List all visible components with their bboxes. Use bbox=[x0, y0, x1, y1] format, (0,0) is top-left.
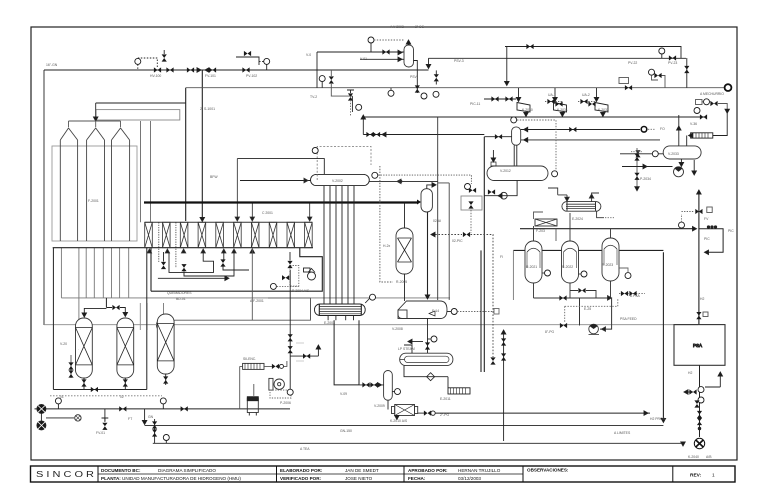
instrument circle on top bbox=[511, 117, 517, 123]
HTS reactor D1 bbox=[525, 241, 542, 283]
control valve w positioner bbox=[695, 209, 702, 214]
control valve w actuator bbox=[348, 93, 353, 100]
relief cluster mid bbox=[319, 76, 325, 82]
wire D2 top to exch bbox=[569, 213, 571, 241]
wire riser to header bbox=[555, 229, 557, 241]
svg-text:FT: FT bbox=[128, 417, 132, 421]
wire PSA bottom line bbox=[699, 365, 701, 437]
svg-text:R-2021: R-2021 bbox=[526, 265, 537, 269]
svg-text:A PSA: A PSA bbox=[630, 294, 641, 298]
pump small bbox=[308, 272, 316, 280]
valve stack bbox=[154, 419, 156, 443]
wire to left w arrow bbox=[684, 391, 693, 393]
wire band top line bbox=[145, 221, 313, 223]
svg-text:H2 PROD: H2 PROD bbox=[650, 417, 666, 421]
svg-text:K-2040: K-2040 bbox=[688, 455, 699, 459]
KO drum vessel bbox=[663, 146, 701, 159]
svg-text:E-2024: E-2024 bbox=[572, 217, 583, 221]
svg-text:01: 01 bbox=[60, 395, 64, 399]
wire NG feed main bbox=[35, 408, 291, 410]
valve 3 bbox=[209, 67, 216, 72]
svg-text:V-2002: V-2002 bbox=[332, 179, 343, 183]
ejector hatched box bbox=[448, 388, 470, 394]
wire loop to right bbox=[513, 249, 663, 251]
svg-text:TV-2: TV-2 bbox=[310, 95, 317, 99]
separator drum bbox=[398, 301, 447, 319]
dotted aux line bbox=[50, 395, 162, 397]
relief stack left bbox=[70, 355, 72, 378]
instrument circle bbox=[451, 309, 457, 315]
antisurge valves bbox=[545, 101, 562, 103]
svg-text:8"-PG: 8"-PG bbox=[545, 330, 554, 334]
wire up-arrows below band bbox=[147, 249, 151, 253]
svg-text:REV:: REV: bbox=[690, 473, 702, 479]
trim cooler exchanger bbox=[562, 202, 601, 212]
svg-text:PIC: PIC bbox=[728, 229, 734, 233]
valve on dashed bfw line bbox=[463, 232, 470, 237]
wire aux line left bbox=[46, 417, 74, 419]
wire D3 top bbox=[610, 229, 612, 238]
wire pot drain elbow bbox=[414, 61, 418, 71]
svg-text:FV-101: FV-101 bbox=[205, 74, 216, 78]
svg-text:GN: GN bbox=[148, 415, 154, 419]
main horizontal drum bbox=[487, 166, 548, 181]
exchanger shell bbox=[315, 304, 366, 316]
compressor stage 2 bbox=[554, 103, 567, 113]
valve station box bbox=[236, 57, 259, 65]
wire recycle down x663.4 bbox=[662, 252, 664, 419]
wire second leg x481 bbox=[480, 250, 482, 372]
valve BD3 bbox=[220, 259, 225, 266]
wire branch down x144.6 bbox=[144, 409, 146, 421]
svg-text:ELABORADO POR:: ELABORADO POR: bbox=[280, 468, 323, 473]
furnace top box bbox=[96, 110, 180, 120]
wire legs from exchanger bbox=[334, 320, 359, 385]
valve bottom bbox=[696, 312, 701, 319]
svg-text:FV-01: FV-01 bbox=[96, 431, 105, 435]
wire feed down bbox=[96, 102, 186, 104]
wire drum feed bbox=[240, 180, 311, 182]
svg-text:H-2x: H-2x bbox=[383, 244, 390, 248]
U-tube exchanger bbox=[400, 353, 453, 365]
svg-text:R-2023: R-2023 bbox=[602, 263, 613, 267]
adsorber V1 bbox=[76, 318, 93, 378]
PSA box bbox=[674, 325, 725, 366]
wire discharge bbox=[418, 412, 424, 414]
svg-text:P-2006: P-2006 bbox=[280, 401, 291, 405]
svg-text:E-2011: E-2011 bbox=[440, 397, 451, 401]
svg-text:APROBADO POR:: APROBADO POR: bbox=[408, 468, 448, 473]
svg-text:1: 1 bbox=[712, 473, 715, 479]
pump on steam line bbox=[589, 324, 599, 334]
bold instrument bbox=[641, 127, 647, 133]
adsorber V2 bbox=[117, 318, 134, 378]
dotted instrument drops bbox=[158, 222, 160, 263]
instrument circle bbox=[264, 58, 270, 64]
wire left riser x44 bbox=[43, 70, 45, 325]
wire main feed pipe y70 bbox=[44, 69, 429, 71]
wire minimum flow loop bbox=[699, 229, 723, 253]
wire exch inlet bbox=[558, 195, 567, 199]
pump NG1 bbox=[37, 404, 46, 413]
tube lines bbox=[319, 307, 361, 314]
svg-text:QUEMADORES: QUEMADORES bbox=[167, 291, 192, 295]
wire snake 1 bbox=[169, 252, 214, 272]
wire long line y443.3 bbox=[153, 442, 683, 444]
instrument circle bbox=[55, 398, 61, 404]
heat exchanger coil boxes bbox=[145, 222, 313, 247]
svg-text:BFW: BFW bbox=[210, 175, 218, 179]
svg-text:V-09: V-09 bbox=[340, 392, 347, 396]
instrument circle bbox=[370, 294, 376, 300]
valve BD1 bbox=[161, 262, 166, 269]
valve on dashed bfw drop bbox=[490, 357, 495, 364]
wire branch right w valve bbox=[290, 355, 318, 357]
svg-text:PLANTA:: PLANTA: bbox=[101, 476, 121, 481]
svg-text:UNIDAD MANUFACTURADORA DE HIDR: UNIDAD MANUFACTURADORA DE HIDROGENO (HMU… bbox=[122, 476, 241, 481]
wire down-arrows mid bbox=[250, 249, 254, 253]
wire y46.5 header bbox=[505, 47, 681, 59]
svg-text:K 2030: K 2030 bbox=[522, 108, 533, 112]
wire y46.5 drop x506.8 bbox=[506, 47, 508, 83]
labels smudge bbox=[296, 343, 304, 361]
wire long return y425.6 bbox=[145, 425, 664, 427]
wire vertical x317 bbox=[316, 52, 318, 88]
instrument circle bbox=[659, 48, 665, 54]
reciprocating compressor bbox=[395, 405, 415, 416]
valve pair 1 bbox=[154, 67, 161, 72]
valve bbox=[382, 49, 389, 54]
svg-text:V-2008: V-2008 bbox=[392, 327, 403, 331]
svg-text:PIC-11: PIC-11 bbox=[470, 102, 480, 106]
svg-text:R-2022: R-2022 bbox=[562, 265, 573, 269]
svg-text:SILENC.: SILENC. bbox=[243, 357, 256, 361]
wire suction header y117 bbox=[363, 116, 706, 118]
svg-text:16"-GN: 16"-GN bbox=[46, 63, 58, 67]
svg-text:S I N C O R: S I N C O R bbox=[36, 470, 94, 479]
svg-text:VERIFICADO POR:: VERIFICADO POR: bbox=[280, 476, 322, 481]
svg-text:V-01: V-01 bbox=[360, 57, 367, 61]
svg-text:A/B: A/B bbox=[706, 455, 712, 459]
neck double line bbox=[514, 145, 517, 166]
unit enclosure box top bbox=[317, 146, 371, 180]
valve on riser bbox=[287, 261, 292, 268]
strainer cylinder bbox=[247, 398, 258, 413]
wire condensate bbox=[171, 300, 311, 320]
wire riser x290.2 bbox=[289, 270, 291, 389]
KO pot vessel bbox=[404, 45, 414, 67]
svg-text:FECHA:: FECHA: bbox=[408, 476, 426, 481]
svg-text:H2: H2 bbox=[700, 297, 704, 301]
wire long line y298 bbox=[268, 298, 311, 319]
instrument cluster bbox=[433, 91, 439, 97]
wire to ejector bbox=[447, 377, 449, 388]
sparger hatched box bbox=[243, 363, 264, 369]
svg-text:V-2033: V-2033 bbox=[668, 152, 679, 156]
svg-text:P-2004 A/S: P-2004 A/S bbox=[292, 289, 310, 293]
wire inlet bbox=[620, 153, 663, 155]
wire y52 branch bbox=[317, 51, 404, 53]
valve 2 bbox=[187, 67, 194, 72]
wire feed drops bbox=[52, 248, 54, 390]
svg-text:BD-01: BD-01 bbox=[176, 297, 186, 301]
svg-text:F-203: F-203 bbox=[536, 229, 545, 233]
pump NG2 bbox=[37, 421, 46, 430]
compressor stage 3 bbox=[595, 103, 608, 113]
svg-text:PSV: PSV bbox=[410, 75, 418, 79]
svg-text:FI: FI bbox=[500, 255, 503, 259]
svg-text:PSA: PSA bbox=[693, 343, 702, 348]
wire exch outlet bbox=[592, 193, 599, 202]
instrument circle bbox=[163, 435, 169, 441]
small top vessel bbox=[512, 127, 521, 145]
dotted vertical x380 bbox=[380, 166, 393, 282]
instrument circle bbox=[160, 398, 166, 404]
wire riser drop bbox=[150, 248, 152, 292]
svg-text:.: . bbox=[540, 247, 541, 251]
svg-text:PSA FEED: PSA FEED bbox=[620, 317, 637, 321]
svg-text:E-25: E-25 bbox=[584, 307, 591, 311]
svg-text:E-2003: E-2003 bbox=[324, 321, 335, 325]
wire tube extensions below bbox=[61, 248, 128, 330]
svg-text:DIAGRAMA SIMPLIFICADO: DIAGRAMA SIMPLIFICADO bbox=[158, 468, 216, 473]
valve bbox=[181, 406, 188, 411]
svg-text:02-AI: 02-AI bbox=[433, 219, 441, 223]
reformer tube 2 bbox=[87, 128, 105, 241]
svg-text:HV-100: HV-100 bbox=[150, 74, 161, 78]
wire flare header bbox=[186, 87, 725, 89]
valve into vessel bbox=[484, 136, 511, 138]
svg-text:V-20: V-20 bbox=[60, 342, 67, 346]
control valve w actuator bbox=[104, 409, 106, 422]
instrument box bbox=[461, 196, 482, 210]
junction arrows bbox=[197, 68, 201, 72]
wire vessel bottom to compressor bbox=[387, 400, 389, 409]
wire enclosure bottom bbox=[151, 248, 322, 292]
wire down leg x484.3 bbox=[483, 137, 485, 372]
svg-text:PV-102: PV-102 bbox=[246, 74, 257, 78]
wire band bottom long line bbox=[53, 247, 313, 249]
wire drain header bbox=[158, 277, 226, 279]
svg-text:R-2005: R-2005 bbox=[396, 280, 407, 284]
svg-text:C 2001: C 2001 bbox=[262, 211, 273, 215]
svg-text:03/12/2003: 03/12/2003 bbox=[458, 476, 481, 481]
wire transfer line bbox=[144, 201, 418, 203]
svg-text:FV: FV bbox=[704, 217, 709, 221]
svg-text:PIC: PIC bbox=[704, 237, 710, 241]
valve PSV stem bbox=[162, 54, 167, 61]
wire bottom header bbox=[53, 389, 146, 391]
svg-text:JOSE NIETO: JOSE NIETO bbox=[345, 476, 373, 481]
methanator vessel with X bbox=[396, 228, 413, 274]
svg-text:A F-2001: A F-2001 bbox=[250, 299, 264, 303]
wire degasser down bbox=[427, 212, 429, 296]
svg-text:OBSERVACIONES:: OBSERVACIONES: bbox=[527, 468, 569, 473]
valve BD2 bbox=[181, 264, 186, 271]
svg-text:V-2012: V-2012 bbox=[500, 169, 511, 173]
instrument circle w dashes bbox=[270, 283, 276, 289]
svg-text:PV-22: PV-22 bbox=[628, 61, 637, 65]
steam drum vessel bbox=[311, 174, 370, 185]
wire gray verticals bbox=[437, 117, 439, 300]
wire drum bottom outlet bbox=[484, 181, 517, 196]
circle at right end bbox=[552, 171, 558, 177]
wire snake 2 bbox=[223, 252, 225, 260]
reformer tube 3 bbox=[112, 128, 130, 241]
riser tubes bbox=[324, 186, 354, 304]
svg-text:V-2009: V-2009 bbox=[374, 404, 385, 408]
wire recycle drop bbox=[713, 113, 727, 135]
svg-text:2"-PG: 2"-PG bbox=[440, 413, 449, 417]
wire y58 header bbox=[429, 57, 687, 59]
svg-text:A V-2002: A V-2002 bbox=[390, 25, 404, 29]
valve bbox=[119, 406, 126, 411]
wire y129.5 and y139.9 from vessel bbox=[521, 129, 640, 131]
svg-text:P-2034: P-2034 bbox=[640, 177, 651, 181]
svg-text:V-36: V-36 bbox=[690, 122, 697, 126]
svg-text:LP STEAM: LP STEAM bbox=[398, 347, 415, 351]
svg-text:A MECHURRIO: A MECHURRIO bbox=[700, 92, 724, 96]
degasser capsule bbox=[421, 189, 432, 212]
nozzle arrow bbox=[492, 150, 494, 159]
wire product arrow right bbox=[619, 293, 645, 295]
svg-text:PSV-3: PSV-3 bbox=[454, 59, 464, 63]
valve stack right edge bbox=[636, 148, 638, 190]
feed bottle vessel bbox=[384, 371, 393, 401]
wire inlet w valves bbox=[359, 384, 384, 386]
pump tail gas bbox=[694, 438, 704, 448]
flare tip circle bbox=[725, 84, 732, 91]
svg-text:A TEA: A TEA bbox=[300, 447, 310, 451]
valve circle pair 1 bbox=[698, 387, 704, 393]
wire vertical drop x202.3 bbox=[201, 70, 203, 220]
wire methanator top bbox=[404, 203, 406, 229]
valve cluster right on y115 bbox=[696, 100, 703, 105]
svg-text:FO: FO bbox=[660, 127, 665, 131]
wire outlet bottom bbox=[404, 366, 448, 377]
svg-text:2" S-1001: 2" S-1001 bbox=[200, 107, 215, 111]
svg-text:DOCUMENTO BC:: DOCUMENTO BC: bbox=[101, 468, 141, 473]
wire D1 top bbox=[533, 226, 535, 241]
svg-text:HERNAN TRUJILLO: HERNAN TRUJILLO bbox=[458, 468, 501, 473]
reformer tube 1 bbox=[60, 128, 77, 241]
wire bottom outlet bbox=[680, 159, 682, 164]
end caps bbox=[319, 304, 361, 315]
instrument circle bbox=[368, 37, 374, 43]
wire top manifold bbox=[84, 308, 112, 318]
pump circle bbox=[674, 167, 684, 177]
svg-text:PV-23: PV-23 bbox=[668, 61, 677, 65]
instrument circle on drum bbox=[372, 172, 378, 178]
svg-text:02: 02 bbox=[120, 395, 124, 399]
wire inlet left bbox=[404, 345, 412, 353]
svg-text:V-0: V-0 bbox=[306, 53, 311, 57]
valve below line bbox=[435, 70, 437, 74]
instrument circle FI bbox=[135, 58, 141, 64]
Methanator reactor D3 bbox=[602, 238, 619, 281]
svg-text:K-2010 A/S: K-2010 A/S bbox=[390, 419, 408, 423]
svg-text:K 2032: K 2032 bbox=[598, 108, 609, 112]
wire feeders above band bbox=[141, 121, 151, 222]
title block outer bbox=[31, 466, 736, 482]
wire vertical drop x185.7 + header y87.7 bbox=[185, 88, 187, 221]
wire separator bottom drop bbox=[427, 319, 429, 354]
wire discharge bbox=[693, 160, 695, 172]
wire bottom stems and valves bbox=[83, 378, 85, 390]
wire product header y228.7 bbox=[520, 228, 695, 230]
legs bbox=[328, 316, 353, 321]
wire methanator bottom bbox=[404, 274, 406, 301]
wire pump circle big bbox=[157, 318, 171, 332]
wire y134.5 left bbox=[363, 134, 484, 136]
small valves stacked bbox=[697, 411, 702, 418]
wire drum feed elbow bbox=[237, 159, 324, 174]
svg-text:GN-150: GN-150 bbox=[340, 429, 352, 433]
svg-text:F-2001: F-2001 bbox=[88, 199, 99, 203]
wire right drop x687 bbox=[686, 58, 688, 88]
firebox bbox=[52, 146, 137, 241]
svg-text:3"-SG: 3"-SG bbox=[415, 25, 424, 29]
valve cluster on flare header bbox=[619, 78, 629, 84]
svg-text:A LIMITES: A LIMITES bbox=[614, 431, 631, 435]
wire main vertical x698.9 bbox=[698, 190, 700, 325]
svg-text:K 2031: K 2031 bbox=[557, 108, 568, 112]
svg-text:JAN DE SMEDT: JAN DE SMEDT bbox=[345, 468, 379, 473]
wire vertical x503.6 bbox=[503, 330, 505, 441]
wire bottoms to header bbox=[534, 281, 611, 298]
wire long gray line y324.7 bbox=[44, 324, 698, 326]
pump w motor bbox=[269, 378, 273, 390]
wire drum outlet line bbox=[369, 180, 437, 182]
svg-text:UA-2: UA-2 bbox=[582, 93, 590, 97]
adsorber V3 bbox=[157, 314, 174, 374]
svg-text:H2: H2 bbox=[688, 371, 692, 375]
wire KO drum inlet vertical bbox=[678, 115, 680, 146]
svg-text:02-PIC: 02-PIC bbox=[452, 239, 463, 243]
svg-text:UA-1: UA-1 bbox=[548, 93, 556, 97]
compressor stage 1 bbox=[517, 103, 530, 113]
wire degasser top elbow bbox=[427, 185, 434, 189]
svg-text:.: . bbox=[78, 347, 79, 351]
svg-text:E-14: E-14 bbox=[432, 309, 439, 313]
filter hatched box bbox=[535, 219, 557, 226]
valve small bbox=[282, 275, 289, 280]
LTS reactor D2 bbox=[562, 241, 579, 283]
wire pump suction line bbox=[622, 166, 673, 168]
wire box left bbox=[140, 303, 147, 330]
valve circle pair 2 bbox=[698, 397, 704, 403]
wire furnace outlet header bbox=[61, 297, 450, 299]
sparger pipe hatched bbox=[691, 133, 713, 138]
dashed instrument box bbox=[290, 266, 299, 287]
wire manifold to tubes bbox=[69, 120, 121, 122]
